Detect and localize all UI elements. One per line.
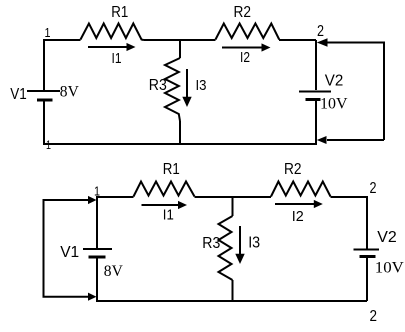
wire middle branch lower (top circuit) — [179, 121, 181, 144]
battery V2 long plate (top circuit) — [299, 91, 331, 93]
resistor R2 (bottom circuit) — [271, 182, 331, 197]
arrowhead I1 (bottom circuit) — [178, 201, 187, 209]
svg-text:V1: V1 — [60, 244, 79, 261]
svg-text:I2: I2 — [292, 208, 304, 225]
wire R1 to R2 (top circuit) — [144, 39, 216, 41]
resistor R1 (top circuit) — [81, 24, 144, 41]
svg-text:R2: R2 — [284, 161, 302, 178]
resistor R1 (bottom circuit) — [134, 182, 195, 197]
svg-text:V2: V2 — [325, 73, 344, 90]
wire left vertical below V1 (top circuit) — [43, 102, 45, 145]
current arrow I3 line (bottom circuit) — [239, 226, 241, 255]
arrowhead I2 (top circuit) — [262, 43, 271, 51]
arrowhead I2 (bottom circuit) — [314, 200, 323, 208]
svg-text:8V: 8V — [60, 84, 79, 101]
svg-text:I2: I2 — [240, 49, 250, 66]
svg-text:I1: I1 — [163, 207, 174, 224]
svg-text:10V: 10V — [375, 260, 404, 277]
wire R1 to R2 (bottom circuit) — [195, 196, 272, 198]
battery V2 long plate (bottom circuit) — [354, 249, 380, 251]
svg-text:2: 2 — [370, 180, 377, 197]
svg-text:10V: 10V — [320, 96, 348, 113]
svg-text:V2: V2 — [377, 229, 397, 246]
wire bottom (bottom circuit) — [96, 300, 367, 302]
resistor R2 (top circuit) — [216, 24, 280, 40]
current arrow I1 line (top circuit) — [88, 46, 128, 48]
arrowhead loop bottom pointing left (top circuit) — [317, 136, 327, 144]
wire left vertical top of V1 (top circuit) — [43, 39, 45, 90]
wire V2 vertical lower (bottom circuit) — [366, 258, 368, 301]
current arrow I2 line (top circuit) — [222, 47, 262, 49]
svg-text:1: 1 — [45, 25, 51, 40]
wire V1 vertical lower (bottom circuit) — [96, 259, 98, 302]
wire bottom (top circuit) — [43, 143, 316, 145]
wire top circuit: node1 to R1 — [44, 39, 81, 41]
wire middle branch upper (top circuit) — [179, 40, 181, 58]
battery V1 short plate (bottom circuit) — [89, 256, 106, 259]
resistor R3 (top circuit) — [165, 58, 180, 121]
wire V2 vertical upper (top circuit) — [315, 40, 317, 90]
wire V2 vertical upper (bottom circuit) — [366, 196, 368, 249]
battery V1 long plate (bottom circuit) — [83, 248, 112, 250]
current arrow I1 line (bottom circuit) — [142, 204, 180, 206]
wire middle branch lower (bottom circuit) — [232, 280, 234, 301]
wire left loop vertical (bottom circuit) — [43, 199, 45, 297]
arrowhead I3 (bottom circuit) — [235, 254, 244, 264]
arrowhead left loop bottom pointing right (bottom circuit) — [88, 293, 97, 301]
wire left loop bottom with arrow line (bottom circuit) — [43, 296, 90, 298]
svg-text:R3: R3 — [202, 235, 220, 252]
battery V1 long plate (top circuit) — [27, 90, 60, 92]
svg-text:I1: I1 — [112, 50, 122, 67]
wire right loop top (top circuit) — [327, 42, 384, 44]
svg-text:R1: R1 — [111, 4, 128, 21]
svg-text:R1: R1 — [163, 161, 180, 178]
wire R2 to node 2 (bottom circuit) — [331, 196, 368, 198]
current arrow I3 line (top circuit) — [186, 69, 188, 97]
svg-text:1: 1 — [46, 138, 51, 152]
wire middle branch upper (bottom circuit) — [232, 196, 234, 216]
arrowhead I1 (top circuit) — [127, 43, 136, 51]
svg-text:2: 2 — [370, 308, 378, 325]
wire right loop vertical (top circuit) — [383, 42, 385, 141]
wire right loop bottom (top circuit) — [327, 139, 384, 141]
current arrow I2 line (bottom circuit) — [275, 203, 315, 205]
wire R2 to node 2 (top circuit) — [279, 39, 316, 41]
svg-text:I3: I3 — [248, 235, 260, 252]
wire V2 vertical lower (top circuit) — [315, 101, 317, 146]
battery V2 short plate (bottom circuit) — [360, 255, 376, 258]
battery V2 short plate (top circuit) — [306, 98, 321, 101]
battery V1 short plate (top circuit) — [37, 99, 53, 102]
wire node1 to R1 (bottom circuit) — [97, 196, 134, 198]
svg-text:2: 2 — [317, 23, 324, 40]
arrowhead loop top pointing left at node 2 (top circuit) — [317, 38, 328, 46]
svg-text:R2: R2 — [234, 4, 252, 21]
svg-text:V1: V1 — [10, 86, 27, 103]
resistor R3 (bottom circuit) — [219, 216, 233, 280]
wire left loop top with arrow line (bottom circuit) — [43, 199, 90, 201]
svg-text:I3: I3 — [196, 77, 207, 94]
arrowhead I3 (top circuit) — [182, 97, 191, 107]
arrowhead left loop top pointing right at node 1 (bottom circuit) — [88, 196, 97, 204]
svg-text:1: 1 — [94, 185, 100, 199]
svg-text:R3: R3 — [149, 77, 167, 94]
svg-text:8V: 8V — [104, 263, 123, 280]
wire V1 vertical upper (bottom circuit) — [96, 196, 98, 248]
